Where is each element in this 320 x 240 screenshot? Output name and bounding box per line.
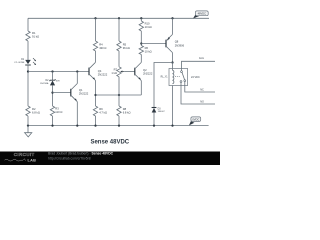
junction on bottom rail at D3 — [153, 124, 155, 126]
junction on bottom rail at Q1 emitter — [76, 124, 78, 126]
net flag 48VDC — [193, 11, 208, 19]
svg-text:Sense 48VDC: Sense 48VDC — [90, 140, 129, 146]
junction coil node (Q8 collector / D3 / relay coil) — [171, 61, 173, 63]
svg-text:430 Ω: 430 Ω — [99, 46, 106, 50]
junction on bottom rail at relay coil — [171, 124, 173, 126]
svg-text:36 kΩ: 36 kΩ — [123, 46, 130, 50]
wire: 0VDC bottom rail — [28, 125, 209, 127]
wire: zener D2 anode to node B — [52, 85, 54, 106]
wire: relay coil bottom to ground rail — [172, 86, 174, 126]
svg-text:2N2222: 2N2222 — [79, 91, 89, 95]
svg-text:24 VDC: 24 VDC — [191, 76, 200, 79]
junction on bottom rail at R9 — [94, 124, 96, 126]
junction Q8 base node — [140, 42, 142, 44]
resistor R2 — [26, 106, 30, 116]
svg-text:R5: R5 — [123, 42, 127, 46]
label D2 1N4749A — [40, 80, 49, 85]
wire: Q8 collector to coil node — [172, 53, 174, 63]
wire: relay common to Com — [182, 61, 216, 68]
svg-text:http://circuitlab.com/c/7bv5r8: http://circuitlab.com/c/7bv5r8 — [48, 157, 91, 161]
junction on bottom rail at R8 — [118, 124, 120, 126]
LED D1 (LTL-307EE) — [25, 60, 31, 65]
wire: relay NC contact — [185, 86, 215, 93]
CircuitLab logo — [5, 152, 37, 163]
svg-text:R2: R2 — [32, 107, 36, 111]
svg-text:R6: R6 — [145, 46, 149, 50]
wire: top rail to R10 — [140, 18, 142, 21]
wire: D3 anode to ground rail — [153, 113, 155, 126]
svg-text:6.8 kΩ: 6.8 kΩ — [123, 111, 131, 115]
wire: R8 to ground rail — [118, 116, 120, 126]
junction on top rail at R5 branch — [118, 17, 120, 19]
zener diode D2 — [50, 79, 56, 85]
resistor R10 — [139, 21, 143, 31]
wire: R7 to emitter bus — [118, 77, 120, 106]
resistor R1 — [26, 31, 30, 41]
junction node B at zener anode / Q1 base — [51, 91, 53, 93]
svg-text:0VDC: 0VDC — [192, 117, 199, 121]
diode D3 1N4007 — [152, 108, 157, 113]
svg-text:1 kΩ: 1 kΩ — [111, 71, 117, 75]
resistor R9 — [93, 106, 97, 116]
label R4 430 Ohm — [99, 42, 106, 50]
wire: R6 to Q2 collector — [140, 55, 142, 63]
svg-text:R3: R3 — [55, 106, 59, 110]
wire: coil node to D3 cathode — [154, 63, 173, 108]
wire: R9 to ground rail — [95, 116, 97, 126]
label R7 1 k — [111, 68, 117, 75]
wire: 48VDC top rail — [28, 17, 209, 19]
svg-text:R10: R10 — [145, 21, 150, 25]
svg-text:LAB: LAB — [28, 159, 37, 163]
junction emitter bus at R7/R8 — [118, 94, 120, 96]
svg-text:Com: Com — [199, 57, 204, 60]
label R2 6.8 k — [32, 107, 40, 115]
label Q8 2N3906 — [175, 39, 185, 47]
svg-text:2N3906: 2N3906 — [175, 44, 185, 48]
net flag 0VDC — [189, 117, 201, 126]
transistor Q2 2N2222 — [135, 62, 142, 80]
relay RL_Y1 24 VDC — [169, 69, 188, 86]
junction node A at LED cathode — [27, 70, 29, 72]
footer attribution text — [48, 151, 114, 160]
label D3 1N4007 — [158, 108, 166, 113]
wire: emitter bus Q4/R9 to R8/Q2 — [96, 94, 142, 96]
label Q4 2N2222 — [98, 69, 108, 76]
wire: top rail to R4 — [95, 18, 97, 41]
junction on bottom rail at R3 — [51, 124, 53, 126]
svg-text:1N4749A: 1N4749A — [40, 82, 49, 85]
wire: node A to zener D2 cathode — [52, 72, 54, 81]
svg-text:91 kΩ: 91 kΩ — [32, 35, 39, 39]
wire: R5 to potentiometer R7 — [118, 51, 120, 67]
svg-text:R4: R4 — [99, 42, 103, 46]
label R9 4.7 k — [99, 107, 107, 115]
svg-text:Q8: Q8 — [175, 39, 179, 43]
label R8 6.8 k — [123, 107, 131, 115]
junction on top rail at Q8 emitter — [171, 17, 173, 19]
potentiometer R7 1 k — [117, 67, 124, 77]
resistor R8 — [117, 106, 121, 116]
wire: R4 to Q4 collector — [95, 51, 97, 62]
wire: Q8 base node to Q8 base — [141, 43, 166, 45]
svg-text:Q1: Q1 — [79, 88, 83, 92]
junction on top rail at R4 branch — [94, 17, 96, 19]
wire: coil node to relay coil top — [172, 63, 174, 71]
svg-text:10 kΩ: 10 kΩ — [145, 49, 152, 53]
label R6 10 k — [145, 46, 152, 54]
wire: R7 wiper to Q2 base — [124, 71, 135, 73]
wire: top rail to R5 — [118, 18, 120, 41]
wire: Q1 collector to node A — [76, 72, 78, 84]
label R5 36 k — [123, 42, 130, 50]
wire: Q1 emitter to ground rail — [76, 102, 78, 126]
svg-text:6.8 kΩ: 6.8 kΩ — [32, 110, 40, 114]
svg-text:1N4007: 1N4007 — [158, 111, 166, 113]
svg-text:2N2222: 2N2222 — [98, 72, 108, 76]
label Q2 2N2222 — [143, 68, 153, 75]
junction node A at D2 branch — [51, 70, 53, 72]
svg-text:110 Ω: 110 Ω — [55, 110, 62, 114]
resistor R4 — [93, 41, 97, 51]
svg-text:LTL-307EE: LTL-307EE — [14, 62, 25, 64]
wire: top rail to Q8 emitter — [172, 18, 174, 34]
resistor R6 — [139, 46, 143, 55]
wire: R1 to LED D1 — [27, 41, 29, 60]
LED D1 emission arrows — [33, 58, 36, 65]
svg-text:R9: R9 — [99, 107, 103, 111]
wire: R10 to Q8 base node — [140, 31, 142, 46]
wire: R2 to ground rail — [27, 116, 29, 126]
wire: relay NO contact — [181, 86, 215, 105]
transistor Q8 2N3906 (PNP) — [166, 34, 173, 52]
svg-text:RL_Y1: RL_Y1 — [161, 77, 169, 79]
label D1 LTL-307EE — [14, 59, 25, 64]
svg-text:R8: R8 — [123, 107, 127, 111]
ground symbol — [25, 126, 32, 137]
svg-text:Brad Joubert (BradJoubert) - S: Brad Joubert (BradJoubert) - Sense 48VDC — [48, 151, 114, 155]
svg-text:48VDC: 48VDC — [198, 12, 206, 16]
label Q1 2N2222 — [79, 88, 89, 95]
junction on bottom rail at ground/R2 — [27, 124, 29, 126]
svg-text:2N2222: 2N2222 — [143, 71, 153, 75]
svg-text:CIRCUIT: CIRCUIT — [14, 152, 35, 157]
svg-text:10 kΩ: 10 kΩ — [145, 25, 152, 29]
wire: Q2 emitter to emitter bus — [140, 81, 142, 95]
wire: R1 top lead — [27, 18, 29, 31]
svg-text:4.7 kΩ: 4.7 kΩ — [99, 111, 107, 115]
wire: node B to Q1 base — [53, 92, 71, 94]
junction on top rail at R10 branch — [140, 17, 142, 19]
junction node A at Q1 collector branch — [76, 70, 78, 72]
junction emitter bus at Q4/R9 — [94, 94, 96, 96]
transistor Q4 2N2222 — [89, 62, 96, 80]
resistor R5 — [117, 41, 121, 51]
svg-text:NC: NC — [200, 88, 204, 91]
resistor R3 — [50, 106, 54, 116]
svg-text:NO: NO — [200, 100, 204, 103]
wire: LED D1 to node A — [27, 65, 29, 106]
label R3 110 Ohm — [55, 106, 62, 114]
transistor Q1 2N2222 — [71, 84, 78, 102]
svg-text:R1: R1 — [32, 31, 36, 35]
wire: Q4 emitter to emitter bus — [95, 81, 97, 107]
footer bar — [0, 152, 220, 166]
label R10 10 k — [145, 21, 152, 29]
wire: node A horizontal (LED cathode / zener top / Q1 collector / Q4 base) — [28, 71, 89, 73]
wire: R3 to ground rail — [52, 116, 54, 126]
label R1 91 k — [32, 31, 39, 39]
